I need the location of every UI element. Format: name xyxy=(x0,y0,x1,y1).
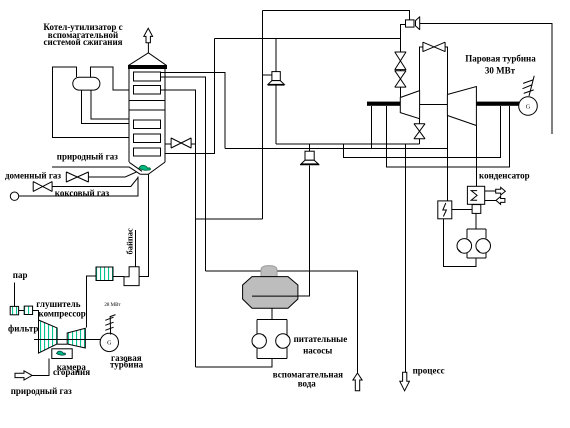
ejector box xyxy=(438,201,452,219)
wire elbow to silencer xyxy=(113,276,124,278)
valve R4 line xyxy=(171,138,191,148)
cooling water out arrow xyxy=(496,187,506,195)
combustion chamber xyxy=(52,349,72,359)
wire riser jog xyxy=(400,24,405,52)
condenser coil xyxy=(471,191,477,201)
wire cond pump loop top xyxy=(467,228,486,230)
wire silencer to GT riser xyxy=(87,276,96,328)
relief valve RV1 square xyxy=(272,72,280,81)
wire drum loop left xyxy=(53,67,130,137)
wire RV2 to deaerator xyxy=(252,166,310,297)
steam valve 1 on riser xyxy=(395,52,406,70)
svg-text:процесс: процесс xyxy=(413,366,445,376)
GT compressor xyxy=(39,320,58,353)
wire condenser out to pot xyxy=(475,213,477,229)
wire tower R2 out xyxy=(161,90,196,367)
chimney stem xyxy=(147,43,149,54)
wire R4 valve line left xyxy=(165,143,171,145)
wire cond pump loop bottom xyxy=(467,257,486,259)
wire HP exhaust valve drop xyxy=(419,119,421,124)
wire tower R1 out bottom xyxy=(161,77,206,271)
svg-text:системой сжигания: системой сжигания xyxy=(43,37,122,47)
wire riser between valves xyxy=(399,70,401,71)
wire bypass right to LP and ejector xyxy=(445,47,447,201)
feed pump 2 xyxy=(276,334,290,348)
ST generator circle xyxy=(519,97,538,116)
valve coke gas xyxy=(33,182,52,192)
svg-text:пар: пар xyxy=(13,270,28,280)
wire blast furnace gas line xyxy=(88,176,125,178)
wire drum loop right xyxy=(91,67,130,90)
exhaust silencer hatched xyxy=(96,267,113,281)
HP turbine xyxy=(400,91,419,119)
hopper right slant xyxy=(140,162,165,174)
gas duct diag 3 xyxy=(131,177,139,186)
svg-text:турбина: турбина xyxy=(110,359,144,369)
ST generator hatch xyxy=(523,76,535,96)
gas duct diag 1 xyxy=(129,167,140,174)
svg-text:фильтр: фильтр xyxy=(8,324,38,334)
relief valve RV1 flare xyxy=(268,81,285,86)
deaerator tank xyxy=(243,277,298,309)
feed pump 1 xyxy=(252,334,266,348)
HRSG tower body xyxy=(129,65,167,162)
wire A bottom to V1 xyxy=(195,218,262,220)
svg-text:G: G xyxy=(107,340,112,347)
wire vent header top xyxy=(262,11,409,20)
boiler tube bank R1 xyxy=(134,72,161,81)
wire bar drop to R xyxy=(370,106,372,149)
deaerator level line xyxy=(252,295,298,297)
shaft bar left xyxy=(367,102,400,106)
wire steam par line xyxy=(13,283,15,307)
wire tower R5 out main steam xyxy=(165,39,215,154)
wire bypass left xyxy=(420,47,423,91)
steam drum xyxy=(73,77,100,90)
wire feed pump legs xyxy=(256,320,258,335)
wire vent to right edge xyxy=(420,23,552,134)
wire stub A to RV1 xyxy=(262,74,272,76)
wire riser to HP turbine xyxy=(399,87,401,97)
wire RV1 to bus P xyxy=(275,85,277,144)
boiler tube bank R3 xyxy=(134,120,161,129)
burner flame xyxy=(139,165,150,170)
wire feed pump loop bottom xyxy=(257,357,287,359)
wire main steam header xyxy=(215,38,401,40)
svg-text:компрессор: компрессор xyxy=(39,309,86,319)
wire par box link xyxy=(19,309,25,311)
wire tower R1 out top xyxy=(161,73,225,149)
svg-text:Паровая турбина: Паровая турбина xyxy=(465,54,536,64)
wire par box2 to compressor xyxy=(33,310,39,320)
vent horn xyxy=(416,17,420,30)
svg-text:G: G xyxy=(526,103,531,110)
combustion flame xyxy=(57,351,66,355)
svg-text:питательные: питательные xyxy=(294,334,348,344)
wire RV1 drop from header xyxy=(275,39,277,72)
wire feed pump loop top xyxy=(257,319,287,321)
wire hopper drop xyxy=(139,174,148,276)
svg-text:конденсатор: конденсатор xyxy=(479,170,530,180)
wire deaerator to feed pumps xyxy=(271,308,273,319)
svg-text:природный газ: природный газ xyxy=(11,386,72,396)
wire LP exhaust to condenser xyxy=(475,126,477,187)
gas duct diag 2 xyxy=(125,172,137,177)
GT shaft center line xyxy=(34,339,100,341)
wire line A vertical xyxy=(261,11,263,220)
svg-text:28 МВт: 28 МВт xyxy=(104,303,121,308)
exhaust elbow xyxy=(124,267,139,286)
wire shaft HP-LP xyxy=(420,104,448,106)
vent silencer box xyxy=(406,20,415,27)
svg-text:коксовый газ: коксовый газ xyxy=(55,188,110,198)
wire ejector to pot xyxy=(452,208,472,210)
wire process drop xyxy=(405,144,407,373)
wire bus S xyxy=(344,106,501,158)
chimney arrow xyxy=(144,28,153,43)
wire condenser cooling out xyxy=(485,190,496,192)
svg-text:глушитель: глушитель xyxy=(36,299,80,309)
condensate pump 2 xyxy=(476,239,491,254)
boiler section lines xyxy=(129,100,165,110)
wire bus P xyxy=(276,143,420,145)
wire cond pump legs xyxy=(466,229,468,239)
wire bypass stack xyxy=(134,230,136,267)
svg-text:вода: вода xyxy=(298,379,317,389)
condensate pump 1 xyxy=(457,239,472,254)
svg-text:байпас: байпас xyxy=(125,228,135,255)
GT generator hatch xyxy=(105,315,115,335)
boiler tube bank R2 xyxy=(134,86,161,95)
wire GT fuel line xyxy=(32,359,49,376)
ejector lightning xyxy=(443,203,447,217)
wire HP valve to P xyxy=(419,139,421,144)
svg-text:природный газ: природный газ xyxy=(57,151,118,161)
wire natural gas line xyxy=(52,166,129,168)
condenser box xyxy=(467,186,484,204)
wire cond pump out xyxy=(444,219,477,267)
par box 2 hatched xyxy=(24,306,32,314)
wire drum bottom right xyxy=(91,90,129,119)
boiler tube bank R4 xyxy=(134,134,161,143)
par box 1 xyxy=(10,306,18,314)
svg-text:доменный газ: доменный газ xyxy=(5,171,61,181)
wire bus R xyxy=(225,148,448,150)
boiler roof triangle xyxy=(129,53,167,66)
coke gas source circle xyxy=(10,192,18,200)
aux water arrow up xyxy=(353,373,362,391)
bypass valve xyxy=(423,42,445,51)
condensate pot xyxy=(472,205,481,214)
HP exhaust valve xyxy=(414,124,425,139)
GT shaft band xyxy=(57,343,67,345)
relief valve RV2 square xyxy=(305,151,314,160)
LP turbine xyxy=(447,87,476,126)
process arrow down xyxy=(400,372,410,391)
wire coke gas circle line xyxy=(19,177,139,197)
valve blast gas xyxy=(66,172,88,182)
wire feed pump out xyxy=(195,358,272,367)
title text HRSG xyxy=(43,22,122,47)
steam valve 2 on riser xyxy=(395,71,406,87)
svg-text:насосы: насосы xyxy=(303,346,332,356)
wire drum bottom left xyxy=(81,90,129,124)
wire coke gas valve line xyxy=(52,186,131,188)
boiler top plate xyxy=(129,65,167,68)
cooling water in arrow xyxy=(496,197,505,205)
GT turbine xyxy=(67,328,85,348)
wire bus T xyxy=(387,106,510,167)
svg-text:сгорания: сгорания xyxy=(53,367,90,377)
wire R4 valve line right xyxy=(191,143,195,145)
hopper left slant duct top xyxy=(129,162,142,171)
shaft bar right xyxy=(476,102,520,106)
wire RV2 drop xyxy=(309,144,311,151)
boiler tube bank R5 xyxy=(134,148,161,156)
svg-text:30 МВт: 30 МВт xyxy=(485,66,516,76)
GT generator circle xyxy=(100,333,118,351)
wire condenser cooling in xyxy=(485,199,496,201)
relief valve RV2 flare xyxy=(300,160,319,165)
deaerator dome xyxy=(261,266,277,277)
wire V2 to aux water riser xyxy=(205,271,357,373)
fuel gas arrow xyxy=(15,371,32,380)
